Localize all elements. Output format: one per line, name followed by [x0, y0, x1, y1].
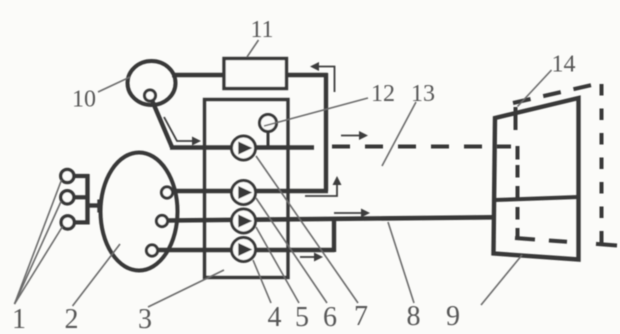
- svg-text:5: 5: [295, 302, 309, 333]
- pump P2: [232, 181, 256, 205]
- flow arrow up at line2 corner: [305, 176, 342, 196]
- svg-text:6: 6: [323, 302, 337, 333]
- element 14 (tick on panel top edge): [514, 107, 518, 130]
- flow arrow top (left): [310, 62, 335, 92]
- dashed vertical inside panel: [516, 165, 520, 237]
- flow arrow right above dashed line: [341, 131, 368, 140]
- input circle 1b: [61, 191, 74, 204]
- pump line 3 / line 8 to panel: [168, 217, 494, 220]
- svg-text:12: 12: [371, 81, 395, 107]
- wire: bus to ellipse 2: [88, 203, 101, 207]
- svg-text:8: 8: [407, 301, 421, 332]
- pump line 1 (y=147.5): [170, 145, 314, 150]
- wire: bus bar: [85, 174, 89, 225]
- input circle 1a: [61, 169, 74, 182]
- terminal bar at ellipse 2: [97, 200, 101, 213]
- leader 2: [73, 244, 121, 306]
- dashed signal line 13 (horizontal): [332, 145, 511, 149]
- leader 10: [98, 77, 130, 92]
- dashed corner of line 13: [516, 146, 520, 160]
- pivot circle on sensor 10: [145, 90, 156, 101]
- panel divider: [495, 197, 579, 200]
- gauge stem 12: [267, 128, 270, 147]
- svg-text:3: 3: [138, 304, 152, 334]
- svg-text:13: 13: [411, 81, 435, 107]
- flow arrow right above line 8: [334, 209, 370, 218]
- leader 11: [247, 40, 259, 57]
- source ellipse 2: [101, 153, 178, 271]
- pump line 4 (y=250): [158, 248, 335, 253]
- wire: stub from circle 1b: [74, 195, 89, 199]
- dashed back right edge: [600, 84, 604, 248]
- leader 7: [256, 156, 358, 303]
- svg-text:9: 9: [446, 301, 460, 332]
- wire: stub from circle 1a: [74, 174, 89, 178]
- pump P4: [232, 238, 256, 262]
- transducer block 11: [224, 59, 287, 89]
- wire: vertical from corner down to pump line 2: [324, 73, 328, 191]
- distributor box 3: [205, 100, 289, 278]
- outlet circle on ellipse 2 (top): [161, 187, 172, 198]
- wire: stub from circle 1c: [74, 220, 89, 224]
- flow arrow near sensor 10 drop (right): [164, 117, 201, 146]
- pump P3: [232, 209, 256, 233]
- dashed back bottom edge: [515, 238, 567, 242]
- leader 12: [264, 98, 368, 126]
- leader 13: [382, 102, 416, 166]
- outlet circle on ellipse 2 (bottom): [146, 245, 157, 256]
- leader 4: [253, 260, 271, 303]
- leader 9: [481, 255, 522, 305]
- pump P1: [232, 136, 256, 160]
- sensor 10 (ellipse): [128, 61, 176, 105]
- wire: vertical joining line4 to line3: [332, 218, 336, 252]
- svg-text:2: 2: [65, 304, 79, 334]
- leader 3: [148, 270, 224, 307]
- input circle 1c: [61, 216, 74, 229]
- wire: diagonal from sensor 10 pivot: [151, 98, 172, 148]
- dashed back bottom edge (outer dash): [596, 244, 617, 246]
- svg-text:7: 7: [354, 301, 368, 332]
- leader lines for 1: [15, 180, 62, 304]
- leader 6: [256, 198, 327, 303]
- leader 5: [256, 227, 299, 303]
- gauge circle 12: [260, 115, 277, 132]
- svg-text:14: 14: [552, 52, 576, 78]
- pump line 2 (y=191): [173, 189, 329, 194]
- leader 14: [518, 70, 552, 107]
- flow arrow right below line 4: [300, 253, 323, 262]
- svg-text:11: 11: [250, 17, 273, 43]
- svg-text:1: 1: [12, 304, 26, 334]
- svg-text:10: 10: [72, 87, 96, 113]
- dashed back top edge: [513, 83, 603, 104]
- svg-text:4: 4: [268, 302, 282, 333]
- leader 8: [388, 222, 414, 303]
- display panel 9 (front face): [494, 98, 579, 260]
- outlet circle on ellipse 2 (mid): [156, 215, 167, 226]
- wire: ellipse10 to rect11 to corner: [172, 73, 328, 78]
